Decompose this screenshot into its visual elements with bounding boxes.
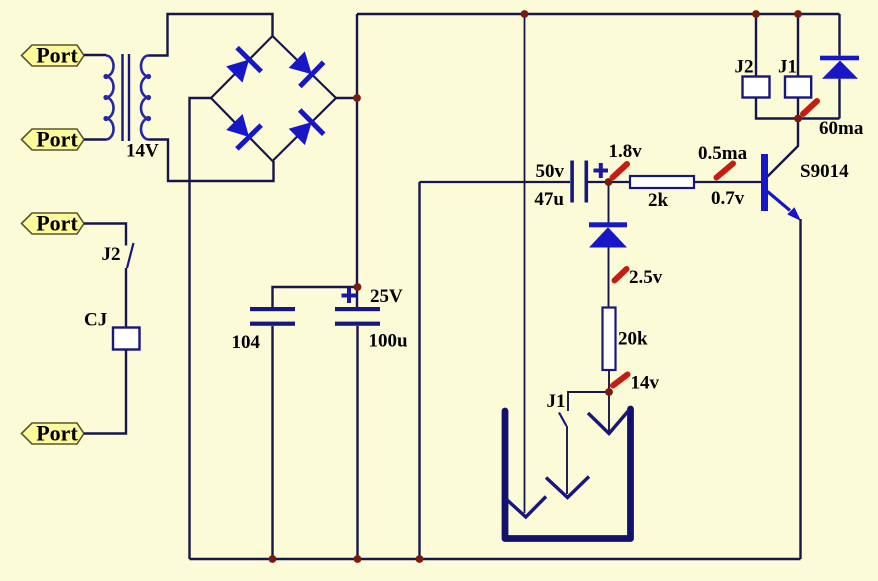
wire bottom ground rail <box>190 558 801 561</box>
wire bridge negative to ground rail (left edge) <box>190 98 212 559</box>
transformer T1 primary winding <box>103 56 113 140</box>
junction node 14v <box>605 388 613 396</box>
wire bridge positive output <box>336 97 357 99</box>
wire top rail to relay J2 coil <box>755 14 757 77</box>
svg-text:J2: J2 <box>735 57 754 78</box>
wire node 14v to high probe <box>608 392 610 431</box>
svg-text:14V: 14V <box>126 141 159 162</box>
svg-text:Port: Port <box>36 211 78 236</box>
wire node 1.8v down to diode D5 <box>608 182 610 223</box>
node Port 1 (AC input top) <box>22 43 85 68</box>
switch J1 blade <box>559 413 567 427</box>
junction ground / cap 104 <box>269 555 277 563</box>
polarity plus of C2 <box>342 288 357 303</box>
junction top rail / J1 coil <box>794 10 802 18</box>
svg-text:Port: Port <box>36 421 78 446</box>
probe mark 2.5v <box>615 269 627 281</box>
junction top rail / J2 coil <box>752 10 760 18</box>
svg-text:25V: 25V <box>370 286 403 307</box>
wire 20k to node 14v <box>608 370 610 392</box>
svg-text:20k: 20k <box>618 329 648 350</box>
relay coil J2 <box>743 77 770 98</box>
diode D5 <box>589 222 627 247</box>
wire to cap 47u left plate <box>420 181 571 183</box>
wire collector node to transistor <box>768 119 799 177</box>
wire emitter to ground rail <box>799 219 801 559</box>
relay coil J1 <box>785 77 811 98</box>
wire relay J2 bottom to collector node <box>756 98 840 119</box>
junction top rail / probe <box>521 10 529 18</box>
node Port 2 (AC input bottom) <box>22 127 85 152</box>
svg-text:0.5ma: 0.5ma <box>698 143 748 164</box>
wire common probe from top rail into tank <box>524 14 526 513</box>
transformer T1 secondary winding <box>141 56 151 140</box>
wire secondary bottom to bridge bottom vertex <box>149 140 274 182</box>
water tank <box>505 409 631 539</box>
transistor Q1 S9014 <box>761 154 801 221</box>
capacitor C1 104 <box>250 307 295 326</box>
wire diode D5 to resistor 20k <box>608 248 610 308</box>
svg-text:J1: J1 <box>547 391 566 412</box>
svg-text:0.7v: 0.7v <box>711 188 745 209</box>
wire Port2 to transformer primary <box>84 138 106 141</box>
polarity plus of C3 <box>594 163 609 178</box>
wire diode D6 to collector node <box>838 79 840 119</box>
resistor R2 20k <box>603 308 616 371</box>
svg-text:60ma: 60ma <box>819 118 864 139</box>
svg-text:CJ: CJ <box>84 310 107 331</box>
probe electrode low (left chevron) <box>506 497 547 518</box>
wire cap 47u to node 1.8v <box>588 181 630 183</box>
probe mark 60ma <box>803 101 817 114</box>
resistor R1 2k <box>630 176 694 188</box>
junction ground / cap 100u <box>354 555 362 563</box>
svg-text:J2: J2 <box>102 244 121 265</box>
wire secondary top to bridge top vertex <box>149 14 273 56</box>
probe mark 0.5ma <box>717 164 734 178</box>
junction collector node <box>794 115 802 123</box>
switch J2 blade <box>127 243 134 268</box>
bridge rectifier diamond <box>211 36 336 161</box>
probe mark 1.8v <box>613 164 628 178</box>
svg-text:1.8v: 1.8v <box>609 141 643 162</box>
wire positive riser to top rail <box>356 14 358 98</box>
capacitor C2 100u (electrolytic) <box>335 307 380 326</box>
probe electrode mid (middle chevron) <box>546 477 589 498</box>
svg-text:104: 104 <box>232 332 261 353</box>
bridge diode D1 (upper-left) <box>226 48 261 83</box>
node Port 4 (relay contact return) <box>22 421 85 446</box>
diode D6 (flyback) <box>820 56 859 79</box>
wire switch J2 to relay CJ <box>125 268 127 328</box>
wire cap 104 to ground rail <box>271 326 273 559</box>
wire top rail to relay J1 coil <box>797 14 799 77</box>
wire Port1 to transformer primary <box>84 54 106 57</box>
svg-text:2.5v: 2.5v <box>629 267 663 288</box>
wire positive down to cap 100u <box>356 98 358 307</box>
transformer T1 core <box>123 54 130 141</box>
wire relay CJ to Port4 <box>84 350 126 434</box>
wire 2k to transistor base <box>694 181 761 183</box>
probe mark 14v <box>613 375 628 386</box>
wire node 14v to switch J1 <box>568 392 609 411</box>
svg-text:47u: 47u <box>534 189 564 210</box>
wire top rail to diode D6 <box>838 14 840 56</box>
svg-text:Port: Port <box>36 127 78 152</box>
capacitor C3 47u/50v <box>570 161 588 203</box>
wire relay J1 bottom to collector node <box>797 98 799 119</box>
svg-text:J1: J1 <box>778 57 797 78</box>
svg-text:S9014: S9014 <box>800 161 849 182</box>
wire switch J1 to middle probe <box>566 426 568 494</box>
svg-text:Port: Port <box>36 43 78 68</box>
bridge diode D4 (lower-right) <box>289 110 324 145</box>
relay CJ box <box>113 328 140 350</box>
node Port 3 (relay contact out) <box>22 211 85 236</box>
svg-text:14v: 14v <box>631 373 660 394</box>
wire cap 47u left side to ground rail <box>418 182 420 559</box>
svg-text:100u: 100u <box>369 331 409 352</box>
probe electrode high (right chevron) <box>588 410 630 434</box>
bridge diode D2 (upper-right) <box>289 51 324 86</box>
junction bridge positive <box>353 94 361 102</box>
junction ground / cap 47u branch <box>416 555 424 563</box>
wire Port3 to switch J2 <box>84 224 126 246</box>
svg-text:50v: 50v <box>536 161 565 182</box>
wire node 25V to cap 104 <box>273 287 358 307</box>
junction 25V node <box>354 283 362 291</box>
junction node 1.8v <box>605 178 613 186</box>
wire cap 100u to ground rail <box>356 326 358 559</box>
wire top positive rail <box>357 13 840 16</box>
svg-text:2k: 2k <box>648 190 669 211</box>
bridge diode D3 (lower-left) <box>226 114 261 149</box>
